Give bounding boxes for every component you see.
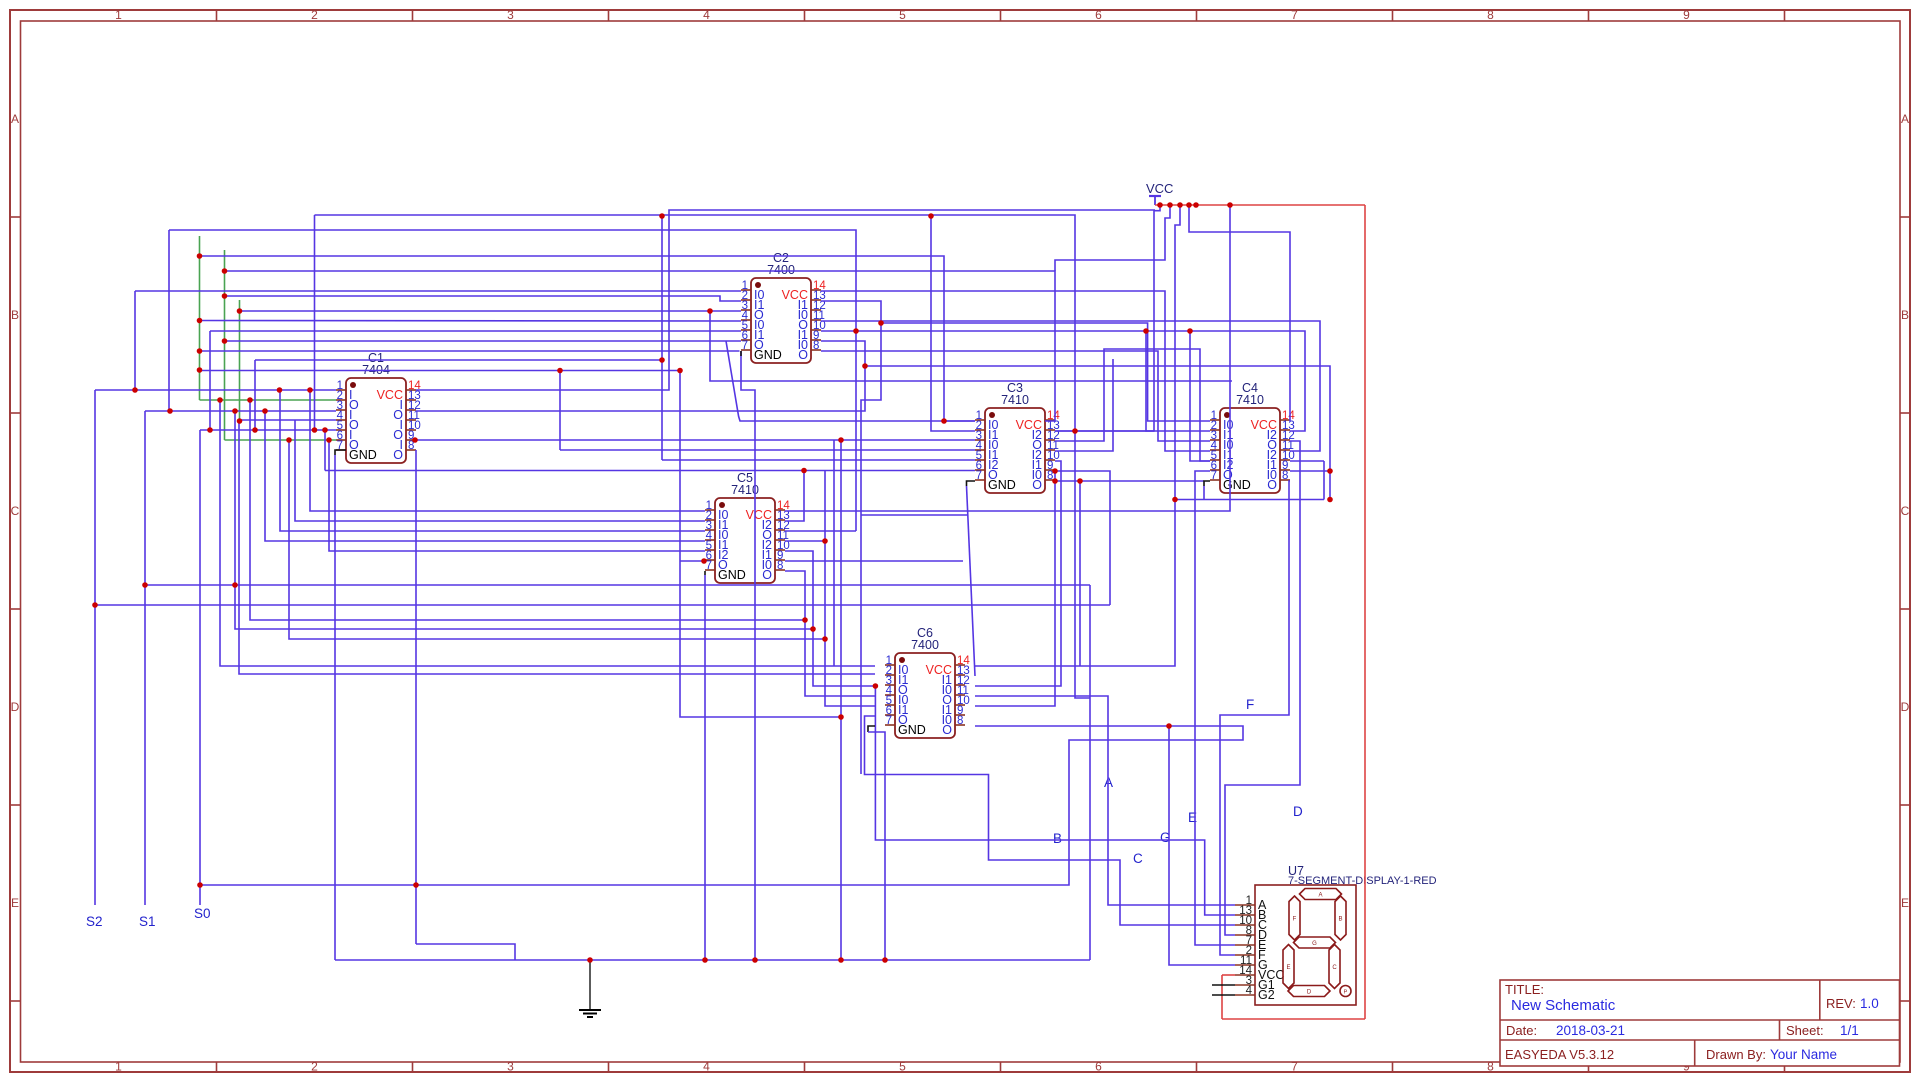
wire branch to C4.5 bbox=[1146, 331, 1210, 461]
wire C1.1b to C5.3 bbox=[280, 390, 705, 531]
svg-text:7: 7 bbox=[1211, 470, 1217, 482]
red rail vert bbox=[1364, 205, 1366, 1019]
svg-text:1/1: 1/1 bbox=[1840, 1023, 1859, 1038]
svg-text:6: 6 bbox=[1095, 1060, 1102, 1074]
wire S2 branch 605 bbox=[95, 604, 1110, 606]
junction at (805,620) bbox=[802, 617, 808, 623]
wire C3.13 row bbox=[1055, 430, 1154, 432]
svg-text:S1: S1 bbox=[139, 914, 156, 929]
svg-text:1: 1 bbox=[115, 1060, 122, 1074]
wire C3.9 to C6.10 bbox=[975, 471, 1055, 706]
svg-text:7400: 7400 bbox=[911, 638, 939, 652]
green vertical 3 bbox=[239, 300, 241, 420]
junction at (704,561) bbox=[701, 558, 707, 564]
wire H215 to C3.13dot bbox=[315, 215, 1091, 698]
junction at (224.5,271) bbox=[222, 268, 228, 274]
svg-text:A: A bbox=[11, 112, 19, 126]
junction at (560,370.5) bbox=[557, 368, 563, 374]
wire V841 gnd bbox=[840, 440, 842, 961]
svg-text:GND: GND bbox=[898, 723, 926, 737]
junction at (235,585) bbox=[232, 582, 238, 588]
junction at (1169,726) bbox=[1166, 723, 1172, 729]
IC C6 7400 quad NAND bbox=[885, 626, 970, 738]
wire V169 bbox=[168, 230, 170, 411]
wire C2.7 gnd stub bbox=[740, 351, 742, 356]
wire fan x325b bbox=[324, 430, 326, 471]
wire fan x235 bbox=[235, 411, 813, 629]
ground rail bbox=[335, 959, 1090, 961]
IC C4 7410 triple NAND bbox=[1210, 381, 1295, 493]
junction at (224.5,296) bbox=[222, 293, 228, 299]
wire C3.7 gnd stub bbox=[967, 481, 976, 486]
wire fan x250 bbox=[250, 400, 805, 620]
wire H230 down bbox=[169, 230, 856, 531]
wire tap 296 bbox=[225, 296, 742, 301]
svg-text:8: 8 bbox=[957, 715, 963, 727]
wire U7 G2 stub bbox=[1212, 994, 1235, 996]
junction at (239.5,311) bbox=[237, 308, 243, 314]
wire U7 G1 stub bbox=[1212, 984, 1235, 986]
svg-text:GND: GND bbox=[718, 568, 746, 582]
wire C5.8 to C6.4 bbox=[785, 571, 875, 696]
svg-text:5: 5 bbox=[899, 1060, 906, 1074]
junction at (1146,331) bbox=[1143, 328, 1149, 334]
svg-text:D: D bbox=[11, 700, 20, 714]
svg-text:E: E bbox=[1286, 965, 1290, 971]
svg-text:4: 4 bbox=[703, 1060, 710, 1074]
svg-text:EASYEDA V5.3.12: EASYEDA V5.3.12 bbox=[1505, 1047, 1614, 1062]
junction at (145,585) bbox=[142, 582, 148, 588]
svg-text:7410: 7410 bbox=[1236, 393, 1264, 407]
svg-text:3: 3 bbox=[507, 1060, 514, 1074]
svg-text:O: O bbox=[393, 448, 403, 462]
svg-text:F: F bbox=[1246, 697, 1254, 712]
junction at (1160,205) bbox=[1157, 202, 1163, 208]
wire C5.13 tap bbox=[785, 471, 804, 522]
junction at (1330,471) bbox=[1327, 468, 1333, 474]
title block bbox=[1500, 980, 1900, 1066]
green wire to C1 pin2 bbox=[200, 399, 337, 401]
svg-text:B: B bbox=[1901, 308, 1909, 322]
junction at (841,960) bbox=[838, 957, 844, 963]
wire C6.7 gnd jog bbox=[868, 726, 875, 732]
junction at (199.5,320.5) bbox=[197, 318, 203, 324]
junction at (856,331) bbox=[853, 328, 859, 334]
svg-text:P: P bbox=[1344, 990, 1348, 996]
svg-text:A: A bbox=[1901, 112, 1909, 126]
IC C3 7410 triple NAND bbox=[975, 381, 1060, 493]
wire C4.12 to D bbox=[1225, 441, 1300, 935]
junction at (705,960) bbox=[702, 957, 708, 963]
wire H331 to C2.5 bbox=[210, 330, 741, 332]
wire C2.3 branch bbox=[710, 311, 1232, 381]
green vertical 1 bbox=[199, 236, 201, 400]
wire C3.8 out bbox=[1055, 480, 1204, 482]
junction at (255,430) bbox=[252, 427, 258, 433]
junction at (1055,481) bbox=[1052, 478, 1058, 484]
junction at (1180,205) bbox=[1177, 202, 1183, 208]
svg-text:8: 8 bbox=[777, 560, 783, 572]
svg-text:S2: S2 bbox=[86, 914, 103, 929]
svg-text:B: B bbox=[1338, 917, 1342, 923]
wire fan x240 bbox=[239, 420, 875, 674]
svg-text:Drawn By:: Drawn By: bbox=[1706, 1047, 1766, 1062]
svg-text:VCC: VCC bbox=[1146, 181, 1173, 196]
wire C3.11 up bbox=[1055, 359, 1113, 451]
junction at (199.5,370) bbox=[197, 367, 203, 373]
wire C2.8 to C4.3 bbox=[821, 351, 1210, 441]
wire C5.7 gnd bbox=[704, 575, 706, 960]
VCC drop to C3.13 bbox=[1055, 205, 1160, 431]
svg-text:C: C bbox=[1901, 504, 1910, 518]
wire V135 bbox=[134, 291, 136, 390]
svg-text:O: O bbox=[798, 348, 808, 362]
svg-text:1.0: 1.0 bbox=[1860, 996, 1879, 1011]
junction at (813,629) bbox=[810, 626, 816, 632]
wire bus 450 to C3.4 bbox=[560, 449, 975, 451]
junction at (944,421) bbox=[941, 418, 947, 424]
wire C2.13 bbox=[821, 301, 881, 774]
wire H366 to V1330 bbox=[865, 366, 1330, 500]
wire gnd riser 1090 bbox=[1089, 585, 1091, 960]
junction at (1075,431) bbox=[1072, 428, 1078, 434]
ruler ticks and labels bbox=[216, 10, 218, 21]
junction at (239.5,421) bbox=[237, 418, 243, 424]
wire V662b bbox=[661, 216, 663, 460]
svg-text:TITLE:: TITLE: bbox=[1505, 982, 1544, 997]
svg-text:7: 7 bbox=[742, 340, 748, 352]
wire x680 to gnd bbox=[680, 371, 841, 718]
svg-text:G2: G2 bbox=[1258, 988, 1275, 1002]
wire C1 pin4 row bbox=[240, 419, 337, 421]
svg-text:Your Name: Your Name bbox=[1770, 1047, 1837, 1062]
junction at (755,960) bbox=[752, 957, 758, 963]
svg-text:7410: 7410 bbox=[1001, 393, 1029, 407]
svg-text:GND: GND bbox=[988, 478, 1016, 492]
junction at (210,430) bbox=[207, 427, 213, 433]
wire C4.10 down bbox=[1323, 461, 1325, 500]
wire C6.7 gnd bbox=[868, 732, 885, 961]
svg-text:9: 9 bbox=[1683, 8, 1690, 22]
wire C5.11 to C6.5 bbox=[785, 540, 825, 542]
svg-text:7: 7 bbox=[886, 715, 892, 727]
wire C3.12 to C4.5b bbox=[1055, 349, 1210, 461]
svg-text:E: E bbox=[1901, 896, 1909, 910]
wire V834 bbox=[833, 440, 835, 666]
svg-text:4: 4 bbox=[1246, 985, 1253, 997]
junction at (200,885) bbox=[197, 882, 203, 888]
display U7 7-SEGMENT-DISPLAY-1-RED bbox=[1235, 864, 1437, 1005]
junction at (881,323) bbox=[878, 320, 884, 326]
junction at (680,370.5) bbox=[677, 368, 683, 374]
junction at (885,960) bbox=[882, 957, 888, 963]
junction at (804,470.5) bbox=[801, 468, 807, 474]
junction at (314.5,430) bbox=[312, 427, 318, 433]
junction at (416,885) bbox=[413, 882, 419, 888]
wire fan x210 bbox=[209, 331, 211, 430]
wire tap 370 bbox=[200, 370, 681, 372]
svg-text:7400: 7400 bbox=[767, 263, 795, 277]
wire C2.11 to C4.11 bbox=[821, 321, 1320, 451]
junction at (415,440) bbox=[412, 437, 418, 443]
junction at (662,360) bbox=[659, 357, 665, 363]
junction at (1055,471) bbox=[1052, 468, 1058, 474]
wire H360 bbox=[255, 359, 662, 361]
junction at (1189,205) bbox=[1186, 202, 1192, 208]
wire C6.11 to A bbox=[975, 696, 1235, 905]
red rail horiz bbox=[1155, 204, 1365, 206]
svg-text:2: 2 bbox=[311, 8, 318, 22]
wire C6.3 to B bbox=[875, 686, 1235, 915]
svg-text:5: 5 bbox=[899, 8, 906, 22]
wire tap 351 bbox=[200, 350, 740, 352]
VCC drop 1189 bbox=[1189, 205, 1196, 232]
wire C4 gnd jog bbox=[1204, 481, 1210, 486]
junction at (1170,205) bbox=[1167, 202, 1173, 208]
wire C2.10 to C4.2 bbox=[821, 331, 1210, 431]
svg-text:C: C bbox=[1133, 851, 1143, 866]
red wire to U7 pin14 bbox=[1222, 974, 1235, 976]
junction at (95,605) bbox=[92, 602, 98, 608]
junction at (1230,205) bbox=[1227, 202, 1233, 208]
svg-text:4: 4 bbox=[703, 8, 710, 22]
junction at (841,440) bbox=[838, 437, 844, 443]
wire tap 341 to C2.6 bbox=[225, 340, 742, 342]
wire C5.9 row bbox=[785, 560, 963, 562]
junction at (265,411) bbox=[262, 408, 268, 414]
wire C2.7 gnd bbox=[741, 351, 755, 960]
wire H470 to C3.6 bbox=[325, 470, 975, 472]
junction at (1175,499.5) bbox=[1172, 497, 1178, 503]
svg-text:8: 8 bbox=[1487, 1060, 1494, 1074]
wire C1 pin5 row bbox=[200, 429, 336, 431]
wire V825 bbox=[825, 471, 875, 707]
junction at (279.5,390) bbox=[277, 387, 283, 393]
wire fan x290 bbox=[289, 440, 825, 639]
wire C1.12 to C2.9 bbox=[416, 341, 865, 411]
wire C2.14 to C4.4 bbox=[821, 291, 1210, 451]
wire C1 pin1 row bbox=[95, 389, 336, 391]
wire H944 bbox=[416, 944, 515, 960]
junction at (662,216) bbox=[659, 213, 665, 219]
wire riser 1110 to C3.9 bbox=[1055, 471, 1110, 605]
VCC drop to C5.14 bbox=[785, 205, 1230, 511]
svg-text:7: 7 bbox=[976, 470, 982, 482]
IC C2 7400 quad NAND bbox=[741, 251, 826, 363]
wire tap 256 to C3.1 bbox=[200, 256, 976, 421]
svg-text:E: E bbox=[11, 896, 19, 910]
wire V560 bbox=[559, 371, 561, 451]
wire C1.9 to C3.3 bbox=[416, 439, 975, 441]
junction at (1080,481) bbox=[1077, 478, 1083, 484]
wire S0 vertical bbox=[199, 430, 201, 905]
wire S2 vertical bbox=[94, 390, 96, 905]
junction at (865,366) bbox=[862, 363, 868, 369]
wire C5.7 stub bbox=[704, 571, 706, 575]
wire tap 321 to C2.4 bbox=[200, 320, 742, 323]
wire C5.10 to C6.3 bbox=[785, 551, 875, 686]
wire bus 585 bbox=[145, 584, 1090, 586]
wire C3.8 down bbox=[1079, 481, 1081, 666]
junction at (825,639) bbox=[822, 636, 828, 642]
wire V314 bbox=[314, 215, 316, 430]
wire C2.6 diag bbox=[726, 341, 975, 421]
wire G net from C6.8 bbox=[1169, 726, 1235, 965]
junction at (199.5,256) bbox=[197, 253, 203, 259]
wire C2.13 branch to C4.1 bbox=[881, 323, 1210, 421]
svg-text:GND: GND bbox=[349, 448, 377, 462]
junction at (235,411) bbox=[232, 408, 238, 414]
wire fan x220 bbox=[220, 400, 875, 666]
wire C6.8 loop bbox=[200, 726, 1243, 885]
wire fan x255 bbox=[254, 360, 256, 430]
svg-text:O: O bbox=[1032, 478, 1042, 492]
wire tap 271 to C3 vcc bbox=[225, 271, 1056, 421]
svg-text:A: A bbox=[1318, 893, 1322, 899]
svg-text:3: 3 bbox=[507, 8, 514, 22]
wire C3 pin2 feeder bbox=[931, 216, 975, 431]
svg-text:B: B bbox=[11, 308, 19, 322]
wire H499 bbox=[1175, 499, 1324, 501]
U7 seven segment glyph bbox=[1300, 889, 1342, 900]
wire tap 311 to C2.3 bbox=[240, 310, 742, 312]
svg-text:O: O bbox=[1267, 478, 1277, 492]
wire branch to C4.13 bbox=[1190, 331, 1305, 431]
svg-text:F: F bbox=[1293, 917, 1297, 923]
junction at (224.5,341) bbox=[222, 338, 228, 344]
green wire to C1 pin6 bbox=[225, 439, 337, 441]
svg-text:D: D bbox=[1293, 804, 1303, 819]
wire C1.8 down bbox=[415, 450, 417, 944]
IC C5 7410 triple NAND bbox=[705, 471, 790, 583]
wire C4.10 row bbox=[1290, 460, 1324, 462]
junction at (170,411) bbox=[167, 408, 173, 414]
wire C1 gnd down bbox=[335, 450, 346, 455]
svg-text:D: D bbox=[1901, 700, 1910, 714]
ground symbol bbox=[589, 960, 591, 1010]
wire C4 gnd down bbox=[1203, 486, 1205, 500]
red rail up to U7 VCC bbox=[1221, 975, 1223, 1019]
svg-text:7-SEGMENT-DISPLAY-1-RED: 7-SEGMENT-DISPLAY-1-RED bbox=[1288, 875, 1437, 887]
svg-text:GND: GND bbox=[754, 348, 782, 362]
green vertical 2 bbox=[224, 250, 226, 440]
junction at (289,440) bbox=[286, 437, 292, 443]
svg-text:1: 1 bbox=[115, 8, 122, 22]
junction at (329,440) bbox=[326, 437, 332, 443]
svg-text:2018-03-21: 2018-03-21 bbox=[1556, 1023, 1625, 1038]
red rail bottom bbox=[1222, 1018, 1365, 1020]
svg-text:7: 7 bbox=[1291, 8, 1298, 22]
svg-text:D: D bbox=[1307, 990, 1312, 996]
junction at (1330,499.5) bbox=[1327, 497, 1333, 503]
wire H515 bbox=[861, 514, 967, 516]
svg-text:Sheet:: Sheet: bbox=[1786, 1023, 1824, 1038]
wire C2 pin1 feeder bbox=[135, 290, 741, 292]
junction at (590,960) bbox=[587, 957, 593, 963]
junction at (220,400) bbox=[217, 397, 223, 403]
IC C1 7404 hex inverter bbox=[336, 351, 421, 463]
svg-text:C: C bbox=[11, 504, 20, 518]
VCC drop to C6.14 bbox=[975, 205, 1180, 666]
svg-text:7: 7 bbox=[1291, 1060, 1298, 1074]
junction at (841,717) bbox=[838, 714, 844, 720]
wire C4.6 to E bbox=[1195, 471, 1235, 945]
wire bus 460 to C3.5 bbox=[662, 459, 975, 461]
wire C5.6 branch bbox=[680, 560, 705, 562]
junction at (825,541) bbox=[822, 538, 828, 544]
svg-text:O: O bbox=[762, 568, 772, 582]
junction at (310,390) bbox=[307, 387, 313, 393]
wire C4.8 to F bbox=[1220, 481, 1290, 955]
junction at (931,216) bbox=[928, 213, 934, 219]
wire C1 pin3 row bbox=[145, 410, 336, 412]
wire C6.6 to C bbox=[865, 716, 1236, 925]
svg-text:6: 6 bbox=[1095, 8, 1102, 22]
svg-text:S0: S0 bbox=[194, 906, 211, 921]
VCC drop to C4.14 bbox=[1196, 232, 1290, 421]
svg-text:New Schematic: New Schematic bbox=[1511, 997, 1616, 1014]
svg-text:GND: GND bbox=[1223, 478, 1251, 492]
wire C5.12 row bbox=[785, 530, 856, 532]
junction at (325,430) bbox=[322, 427, 328, 433]
junction at (250,400) bbox=[247, 397, 253, 403]
svg-text:Date:: Date: bbox=[1506, 1023, 1537, 1038]
junction at (875.4,686) bbox=[873, 683, 879, 689]
junction at (135,390) bbox=[132, 387, 138, 393]
svg-text:REV:: REV: bbox=[1826, 996, 1856, 1011]
junction at (1190,331) bbox=[1187, 328, 1193, 334]
svg-text:O: O bbox=[942, 723, 952, 737]
junction at (710,311) bbox=[707, 308, 713, 314]
wire C1.6 to C5.5 bbox=[329, 440, 705, 551]
svg-text:2: 2 bbox=[311, 1060, 318, 1074]
wire C1.14 VCC path bbox=[416, 210, 1155, 390]
svg-text:8: 8 bbox=[1282, 470, 1288, 482]
svg-text:8: 8 bbox=[813, 340, 819, 352]
wire C4.9 out bbox=[1290, 470, 1330, 472]
junction at (199.5,351) bbox=[197, 348, 203, 354]
wire C1.3 to C5.4 bbox=[265, 411, 705, 541]
wire S1 vertical bbox=[144, 411, 146, 905]
wire C1 gnd v bbox=[334, 455, 336, 960]
svg-text:G: G bbox=[1312, 941, 1317, 947]
junction at (1196,205) bbox=[1193, 202, 1199, 208]
wire C1.1 to C5.1 bbox=[310, 390, 705, 511]
wire C1.4 to C5.2 bbox=[295, 420, 705, 521]
svg-text:B: B bbox=[1053, 831, 1062, 846]
svg-text:8: 8 bbox=[1487, 8, 1494, 22]
wire C3.10 to C6.12 bbox=[975, 461, 1061, 686]
VCC drop to C3.14 bbox=[1055, 205, 1170, 271]
svg-text:C: C bbox=[1332, 965, 1337, 971]
wire C3.7 gnd slant bbox=[967, 486, 976, 676]
